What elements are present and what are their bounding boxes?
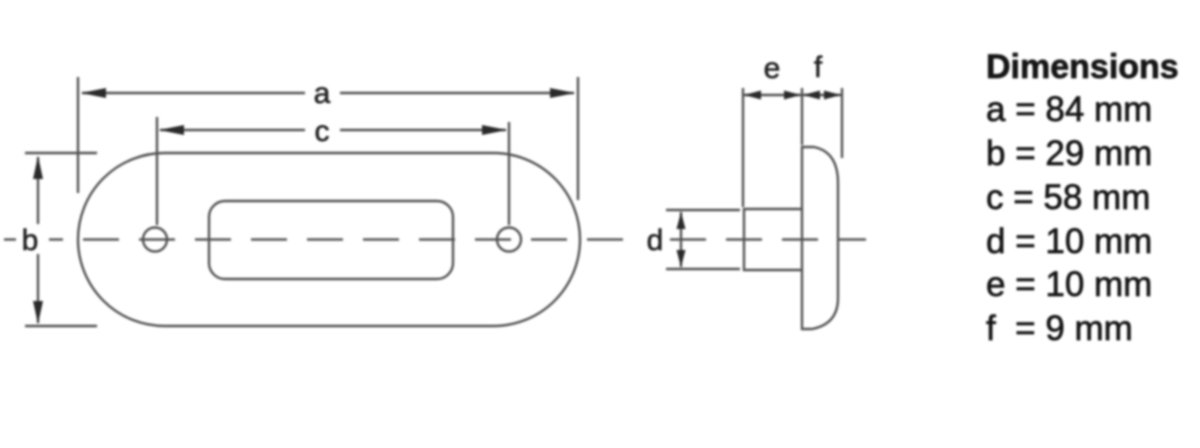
- dimension d arrowhead top: [677, 212, 686, 229]
- hole left: [143, 228, 167, 252]
- svg-text:c = 58 mm: c = 58 mm: [986, 178, 1150, 217]
- dimension a line: [82, 92, 305, 94]
- svg-text:f = 9 mm: f = 9 mm: [986, 309, 1133, 348]
- dimension f arrowhead right: [824, 91, 841, 100]
- dimension a extension line right: [577, 77, 579, 200]
- body stub (side view rectangle): [744, 209, 802, 270]
- wire centerline middle: [49, 238, 637, 240]
- dimension b arrowhead top: [33, 156, 43, 179]
- dimension e/f extension line middle: [801, 88, 803, 145]
- svg-text:b = 29 mm: b = 29 mm: [986, 134, 1152, 173]
- svg-text:d = 10 mm: d = 10 mm: [986, 222, 1152, 261]
- lens dome (side view profile): [802, 147, 838, 329]
- lens window (inner rounded rectangle): [209, 201, 453, 279]
- dimension e/f line: [744, 94, 841, 96]
- hole right: [497, 228, 521, 252]
- dimension c extension line right: [508, 122, 510, 225]
- svg-text:b: b: [22, 224, 39, 257]
- dimension a extension line left: [77, 77, 79, 193]
- svg-text:d: d: [647, 224, 664, 257]
- svg-text:f: f: [814, 51, 823, 84]
- dimension a arrowhead right: [550, 88, 575, 98]
- plate outline (stadium oval, front view): [78, 153, 580, 326]
- dimension c line: [160, 129, 305, 131]
- dimension f arrowhead left: [803, 91, 820, 100]
- centerline (horizontal axis through both views): [4, 238, 16, 240]
- dimension b line: [37, 157, 39, 224]
- dimension c extension line left: [156, 117, 158, 225]
- dimension e extension line left: [742, 88, 744, 207]
- dimension d arrowhead bottom: [677, 250, 686, 267]
- dimension d extension line bottom: [666, 268, 740, 270]
- dimension b arrowhead bottom: [33, 301, 43, 324]
- dimension b extension tick top: [25, 152, 97, 154]
- svg-text:e = 10 mm: e = 10 mm: [986, 265, 1152, 304]
- wire centerline right: [670, 238, 866, 240]
- dimension e arrowhead left: [744, 91, 761, 100]
- svg-text:c: c: [315, 115, 330, 148]
- dimension f extension line right: [841, 88, 843, 158]
- svg-text:Dimensions: Dimensions: [986, 48, 1179, 86]
- dimension a arrowhead left: [81, 88, 106, 98]
- dimension c arrowhead right: [482, 125, 507, 135]
- dimension e arrowhead right: [784, 91, 801, 100]
- svg-text:a = 84 mm: a = 84 mm: [986, 90, 1152, 129]
- svg-text:a: a: [314, 77, 331, 110]
- svg-text:e: e: [764, 52, 781, 85]
- dimension c arrowhead left: [159, 125, 184, 135]
- dimension b extension tick bottom: [25, 325, 97, 327]
- dimension d extension line top: [666, 209, 740, 211]
- dimension d line: [680, 212, 682, 267]
